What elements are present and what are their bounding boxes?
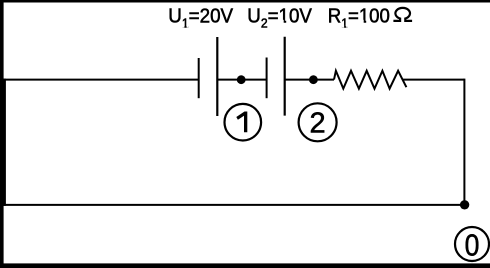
wire right vertical — [463, 79, 465, 205]
svg-text:2: 2 — [310, 108, 326, 140]
label ohm unit — [393, 8, 412, 21]
battery cell 1 short plate — [198, 58, 200, 98]
wire between battery 1 and battery 2 — [217, 79, 266, 81]
node 0 junction dot — [460, 200, 469, 209]
patch: remove serif foot of 1 in 100 — [359, 20, 363, 23]
wire from resistor R1 to right corner — [403, 79, 465, 81]
frame left border — [0, 0, 4, 268]
frame top border — [0, 0, 490, 3]
wire between battery 2 and resistor R1 — [285, 79, 334, 81]
svg-text:U2=10V: U2=10V — [247, 5, 312, 30]
node label circle 2 — [299, 103, 337, 141]
frame bottom border — [0, 263, 490, 268]
patch: remove serif foot of subscript 1 in U1 — [183, 25, 185, 28]
patch: remove serif foot of 1 in 10V — [279, 20, 283, 23]
battery cell 2 long plate — [284, 37, 286, 116]
patch: remove serif foot of subscript 1 in R1 — [342, 25, 344, 28]
svg-text:0: 0 — [465, 229, 480, 263]
wire top-left from frame to battery 1 — [3, 79, 199, 81]
battery cell 2 short plate — [266, 58, 268, 99]
battery cell 1 long plate — [216, 37, 218, 116]
node label circle 0 — [455, 227, 489, 261]
svg-text:U1=20V: U1=20V — [168, 5, 233, 30]
svg-text:R1=100: R1=100 — [328, 5, 390, 30]
wire left vertical — [3, 79, 6, 206]
node 2 junction dot — [309, 75, 318, 84]
wire bottom horizontal — [3, 204, 464, 206]
resistor R1 zigzag — [334, 71, 406, 89]
node 1 junction dot — [237, 75, 246, 84]
node label circle 1 — [225, 104, 262, 141]
